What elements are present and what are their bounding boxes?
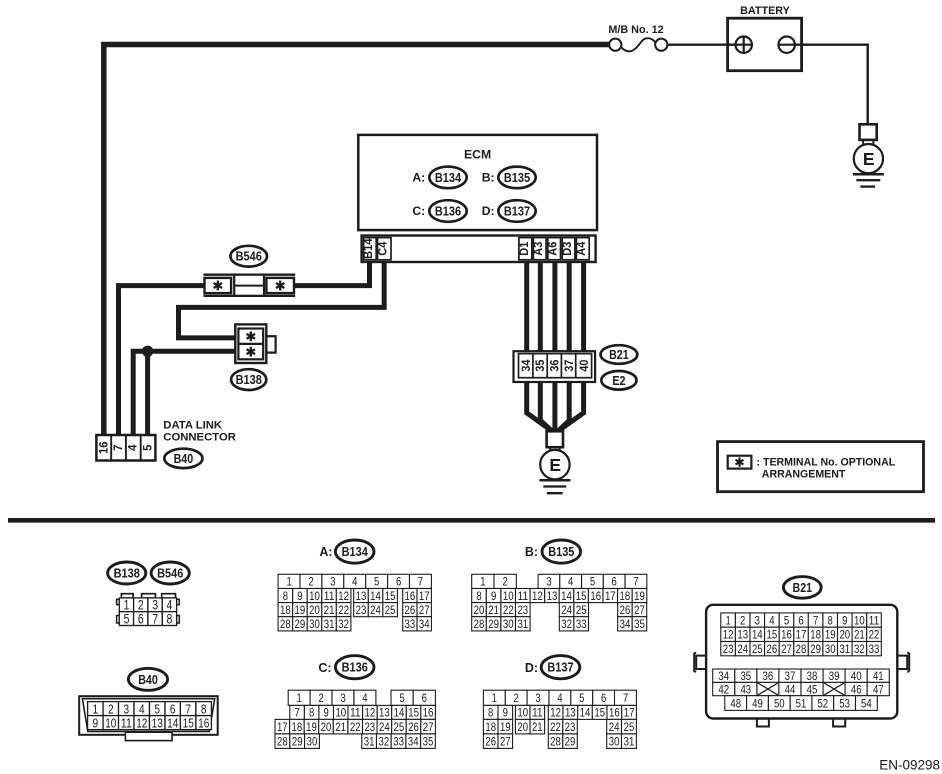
svg-text:EN-09298: EN-09298 [879,758,940,773]
svg-text:11: 11 [869,613,880,627]
connector ref B135 (pinout) [542,540,581,563]
svg-text:19: 19 [825,628,836,642]
svg-text:A:: A: [412,171,425,185]
svg-text:12: 12 [723,628,734,642]
svg-text:29: 29 [810,642,821,656]
svg-text:B136: B136 [342,661,368,675]
svg-text:23: 23 [565,720,576,734]
svg-text:DATA LINK: DATA LINK [163,420,223,432]
svg-text:10: 10 [309,589,320,603]
svg-text:9: 9 [93,715,99,730]
svg-text:B546: B546 [157,567,183,581]
svg-text:5: 5 [579,691,585,705]
wire: ECM pin D3 down to B21 pin 37 [567,258,572,355]
svg-text:7: 7 [111,444,125,451]
svg-text:33: 33 [393,734,404,748]
svg-text:13: 13 [737,628,748,642]
svg-text:18: 18 [485,720,496,734]
wire: B21 pin 37 to ground [557,379,570,433]
data link connector B40 [96,435,155,461]
svg-text:2: 2 [514,691,520,705]
svg-text:5: 5 [590,575,596,589]
svg-text:B40: B40 [138,673,158,687]
svg-text:B135: B135 [548,545,574,559]
wire: ECM pin A4 down to B21 pin 40 [581,258,586,355]
svg-text:B546: B546 [236,250,262,264]
svg-text:5: 5 [784,613,790,627]
svg-text:5: 5 [374,575,380,589]
svg-text:1: 1 [286,575,292,589]
svg-text:21: 21 [335,720,346,734]
svg-text:B138: B138 [236,373,262,387]
svg-text:2: 2 [740,613,746,627]
svg-text:35: 35 [423,734,434,748]
svg-text:28: 28 [277,734,288,748]
ECM box U1 [358,135,597,230]
svg-text:14: 14 [167,715,178,730]
svg-text:12: 12 [338,589,349,603]
svg-text:CONNECTOR: CONNECTOR [163,431,236,443]
svg-text:20: 20 [839,628,850,642]
svg-text:3: 3 [535,691,541,705]
svg-text:34: 34 [620,617,631,631]
svg-text:9: 9 [491,589,497,603]
connector ref B40 [164,449,202,468]
svg-text:D:: D: [525,661,538,675]
svg-text:28: 28 [796,642,807,656]
svg-text:15: 15 [408,706,419,720]
svg-text:9: 9 [503,706,509,720]
svg-text:4: 4 [769,613,775,627]
svg-text:32: 32 [561,617,572,631]
svg-text:7: 7 [294,706,300,720]
svg-text:13: 13 [379,706,390,720]
svg-text:3: 3 [124,701,130,716]
svg-text:15: 15 [767,628,778,642]
connector ref B21 [601,345,638,364]
svg-text:: TERMINAL No. OPTIONAL: : TERMINAL No. OPTIONAL [757,457,896,469]
svg-text:7: 7 [152,611,158,626]
svg-text:34: 34 [718,669,729,683]
connector B40 pinout grid pins 1-16 [79,696,218,740]
pin D1 [519,238,532,260]
svg-text:45: 45 [807,682,818,696]
svg-text:47: 47 [873,682,884,696]
svg-text:5: 5 [399,691,405,705]
svg-text:13: 13 [152,715,163,730]
svg-text:46: 46 [851,682,862,696]
svg-text:18: 18 [810,628,821,642]
svg-text:6: 6 [138,611,144,626]
svg-text:31: 31 [517,617,528,631]
svg-text:28: 28 [474,617,485,631]
svg-text:11: 11 [517,589,528,603]
svg-text:28: 28 [550,734,561,748]
svg-text:29: 29 [295,617,306,631]
svg-text:26: 26 [485,734,496,748]
svg-text:14: 14 [370,589,381,603]
svg-text:31: 31 [839,642,850,656]
svg-text:14: 14 [752,628,763,642]
connector B138/B546 pinout grid pins 1-8 [117,594,180,627]
svg-text:3: 3 [546,575,552,589]
svg-text:27: 27 [423,720,434,734]
pin C4 [378,238,392,260]
svg-text:17: 17 [796,628,807,642]
svg-text:13: 13 [547,589,558,603]
svg-text:20: 20 [474,603,485,617]
junction dot [142,346,153,357]
connector ref B137 [498,200,535,222]
connector B21/E2 pin strip [514,351,596,382]
wire: B138 lower to DLC pin 4 [133,351,237,437]
svg-text:31: 31 [324,617,335,631]
svg-text:34: 34 [419,617,430,631]
svg-text:37: 37 [562,359,576,371]
svg-text:21: 21 [488,603,499,617]
svg-text:3: 3 [330,575,336,589]
svg-text:40: 40 [851,669,862,683]
svg-text:49: 49 [752,696,763,710]
svg-text:10: 10 [854,613,865,627]
svg-text:9: 9 [297,589,303,603]
svg-text:15: 15 [385,589,396,603]
svg-text:21: 21 [532,720,543,734]
svg-text:8: 8 [167,611,173,626]
svg-text:B134: B134 [342,545,368,559]
wire: ECM pin C4 dogleg to B138 upper [179,258,385,338]
svg-text:E2: E2 [612,374,625,388]
svg-text:8: 8 [828,613,834,627]
connector ref B134 [429,167,466,189]
svg-text:44: 44 [785,682,796,696]
svg-text:4: 4 [139,701,145,716]
svg-text:26: 26 [408,720,419,734]
svg-text:12: 12 [550,706,561,720]
svg-text:25: 25 [394,720,405,734]
svg-text:ECM: ECM [464,147,491,161]
svg-text:4: 4 [557,691,563,705]
svg-text:18: 18 [292,720,303,734]
connector ref B40 (pinout) [128,668,167,690]
svg-text:14: 14 [580,706,591,720]
svg-text:B40: B40 [174,452,194,466]
svg-text:42: 42 [718,682,729,696]
svg-text:16: 16 [423,706,434,720]
svg-text:26: 26 [767,642,778,656]
svg-text:43: 43 [740,682,751,696]
svg-text:B21: B21 [609,348,629,362]
svg-text:10: 10 [105,715,116,730]
svg-text:30: 30 [609,734,620,748]
connector ref B136 (pinout) [335,656,374,679]
svg-text:24: 24 [370,603,381,617]
svg-text:16: 16 [609,706,620,720]
pin A3 [533,238,546,260]
svg-text:27: 27 [500,734,511,748]
svg-text:8: 8 [201,701,207,716]
svg-text:6: 6 [396,575,402,589]
svg-text:27: 27 [781,642,792,656]
svg-text:B134: B134 [435,171,461,185]
svg-text:6: 6 [612,575,618,589]
svg-text:22: 22 [338,603,349,617]
svg-text:32: 32 [854,642,865,656]
svg-text:54: 54 [861,696,872,710]
svg-text:18: 18 [620,589,631,603]
svg-text:4: 4 [362,691,368,705]
svg-text:17: 17 [419,589,430,603]
svg-text:ARRANGEMENT: ARRANGEMENT [762,468,846,480]
wire: fuse to battery positive [667,44,743,46]
svg-text:5: 5 [154,701,160,716]
wire: battery negative to ground E [794,45,868,125]
svg-text:13: 13 [356,589,367,603]
wire: B21 pin 35 to ground [540,379,553,433]
svg-text:D:: D: [482,204,495,218]
svg-text:23: 23 [517,603,528,617]
svg-text:26: 26 [620,603,631,617]
connector A B134 pinout grid pins 1-34 [278,574,431,631]
svg-text:E: E [549,455,561,475]
svg-text:38: 38 [807,669,818,683]
svg-text:A4: A4 [574,241,588,255]
wire: ECM pin D1 down to B21 pin 34 [524,258,529,355]
svg-text:24: 24 [379,720,390,734]
inline connector B546 [204,275,296,296]
section divider [8,518,935,523]
svg-text:15: 15 [594,706,605,720]
svg-text:50: 50 [774,696,785,710]
svg-text:4: 4 [126,444,140,451]
svg-text:8: 8 [488,706,494,720]
svg-text:31: 31 [364,734,375,748]
svg-text:B:: B: [525,545,538,559]
svg-text:33: 33 [869,642,880,656]
svg-text:25: 25 [624,720,635,734]
svg-text:30: 30 [503,617,514,631]
svg-text:2: 2 [318,691,324,705]
pin D3 [562,238,575,260]
svg-text:14: 14 [561,589,572,603]
svg-text:11: 11 [324,589,335,603]
pin A4 [576,238,589,260]
svg-text:25: 25 [576,603,587,617]
svg-text:M/B No. 12: M/B No. 12 [608,24,663,36]
svg-text:15: 15 [576,589,587,603]
svg-text:20: 20 [321,720,332,734]
svg-text:35: 35 [740,669,751,683]
svg-text:2: 2 [138,598,144,613]
svg-text:BATTERY: BATTERY [740,5,791,17]
svg-text:4: 4 [352,575,358,589]
svg-text:B14: B14 [361,238,375,259]
svg-text:8: 8 [283,589,289,603]
svg-text:D3: D3 [560,241,574,255]
svg-text:17: 17 [605,589,616,603]
svg-text:13: 13 [565,706,576,720]
svg-text:35: 35 [634,617,645,631]
svg-text:11: 11 [350,706,361,720]
svg-text:9: 9 [324,706,330,720]
svg-text:21: 21 [854,628,865,642]
svg-text:5: 5 [140,444,154,451]
svg-text:7: 7 [418,575,424,589]
svg-text:B:: B: [482,171,495,185]
svg-text:32: 32 [379,734,390,748]
wire: B21 pin 36 to ground [552,379,557,434]
svg-text:7: 7 [623,691,629,705]
svg-text:19: 19 [634,589,645,603]
connector ref B21 (pinout) [783,577,821,599]
svg-text:32: 32 [338,617,349,631]
connector ref B137 (pinout) [541,656,580,679]
wire: B21 pin 40 to ground [558,379,584,432]
svg-text:8: 8 [309,706,315,720]
svg-text:C4: C4 [376,241,390,255]
pin A6 [548,238,561,260]
svg-text:18: 18 [280,603,291,617]
svg-text:19: 19 [295,603,306,617]
svg-text:10: 10 [517,706,528,720]
svg-text:10: 10 [335,706,346,720]
svg-text:9: 9 [842,613,848,627]
svg-text:24: 24 [561,603,572,617]
wire: battery feed from DLC pin 16 up and right to fuse [104,45,611,438]
connector B21 pinout housing [694,605,909,727]
svg-text:3: 3 [755,613,761,627]
ground E (battery) [853,124,884,186]
svg-text:6: 6 [798,613,804,627]
svg-text:20: 20 [309,603,320,617]
svg-text:22: 22 [503,603,514,617]
svg-text:29: 29 [565,734,576,748]
svg-text:2: 2 [308,575,314,589]
svg-text:41: 41 [873,669,884,683]
svg-text:29: 29 [488,617,499,631]
svg-text:17: 17 [624,706,635,720]
svg-text:6: 6 [601,691,607,705]
svg-text:36: 36 [548,359,562,371]
svg-text:40: 40 [577,359,591,371]
svg-text:3: 3 [152,598,158,613]
connector ref B546 [230,246,267,267]
svg-text:1: 1 [725,613,731,627]
svg-text:4: 4 [568,575,574,589]
svg-text:23: 23 [356,603,367,617]
svg-text:12: 12 [532,589,543,603]
svg-text:17: 17 [277,720,288,734]
wire: ECM pin A3 down to B21 pin 35 [538,258,543,355]
wire: ECM pin B14 to B546 [293,258,370,286]
svg-text:16: 16 [405,589,416,603]
svg-text:22: 22 [550,720,561,734]
svg-text:30: 30 [307,734,318,748]
svg-text:6: 6 [422,691,428,705]
svg-text:34: 34 [519,359,533,371]
svg-text:37: 37 [785,669,796,683]
pin B14 [364,238,377,260]
connector ref B134 (pinout) [335,540,374,563]
connector B B135 pinout grid pins 1-35 [472,574,647,631]
fuse M/B No. 12 [609,38,667,51]
svg-text:4: 4 [167,598,173,613]
svg-text:A3: A3 [531,241,545,255]
svg-text:B135: B135 [504,171,530,185]
svg-text:30: 30 [309,617,320,631]
svg-text:E: E [863,149,875,169]
svg-text:C:: C: [318,661,331,675]
svg-text:7: 7 [633,575,639,589]
svg-text:22: 22 [350,720,361,734]
svg-text:27: 27 [634,603,645,617]
svg-text:48: 48 [730,696,741,710]
svg-text:23: 23 [364,720,375,734]
svg-text:39: 39 [829,669,840,683]
svg-text:33: 33 [576,617,587,631]
svg-text:30: 30 [825,642,836,656]
svg-text:D1: D1 [517,241,531,255]
svg-text:5: 5 [124,611,130,626]
connector ref E2 [601,371,636,390]
svg-text:11: 11 [532,706,543,720]
svg-text:36: 36 [763,669,774,683]
svg-text:19: 19 [306,720,317,734]
connector ref B138 (pinout) [108,562,146,584]
svg-text:B137: B137 [504,205,530,219]
connector ref B138 [231,369,266,390]
svg-text:7: 7 [185,701,191,716]
svg-text:16: 16 [590,589,601,603]
connector ref B546 (pinout) [151,562,189,584]
svg-text:A6: A6 [546,241,560,255]
svg-text:19: 19 [500,720,511,734]
svg-text:16: 16 [198,715,209,730]
wire: ECM pin A6 down to B21 pin 36 [552,258,557,355]
svg-text:3: 3 [340,691,346,705]
svg-text:2: 2 [108,701,114,716]
svg-text:51: 51 [796,696,807,710]
svg-text:A:: A: [319,545,332,559]
connector B138 [235,324,275,363]
svg-text:B138: B138 [114,567,140,581]
wire: B21 pin 34 to ground [527,379,553,432]
svg-text:11: 11 [121,715,132,730]
svg-text:24: 24 [609,720,620,734]
legend: terminal note [718,442,924,492]
svg-text:25: 25 [752,642,763,656]
svg-text:31: 31 [624,734,635,748]
svg-text:20: 20 [517,720,528,734]
svg-text:35: 35 [533,359,547,371]
connector ref B135 [498,167,535,189]
svg-text:14: 14 [394,706,405,720]
svg-text:2: 2 [502,575,508,589]
svg-text:1: 1 [297,691,303,705]
ECM pin header row [362,236,596,263]
connector ref B136 [429,200,466,222]
svg-text:B21: B21 [793,581,813,595]
svg-text:25: 25 [385,603,396,617]
svg-text:12: 12 [365,706,376,720]
battery [728,18,802,70]
svg-text:15: 15 [183,715,194,730]
svg-text:1: 1 [93,701,99,716]
svg-text:7: 7 [813,613,819,627]
svg-text:23: 23 [723,642,734,656]
svg-text:26: 26 [405,603,416,617]
svg-text:1: 1 [124,598,130,613]
